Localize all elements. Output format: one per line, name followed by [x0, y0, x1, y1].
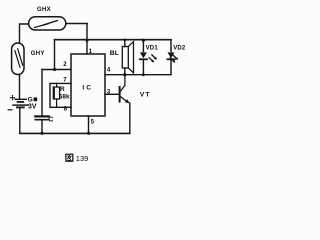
svg-text:GHX: GHX [37, 7, 51, 13]
svg-text:GHY: GHY [31, 51, 45, 57]
svg-text:BL: BL [110, 50, 119, 57]
svg-text:68k: 68k [59, 93, 70, 100]
svg-text:R: R [60, 86, 65, 93]
svg-text:VD1: VD1 [146, 45, 159, 51]
svg-text:VT: VT [140, 92, 151, 99]
svg-text:IC: IC [82, 85, 93, 92]
svg-text:G: G [28, 96, 33, 103]
svg-text:3V: 3V [28, 104, 37, 111]
svg-text:C: C [48, 116, 53, 123]
svg-text:139: 139 [76, 154, 89, 163]
svg-text:VD2: VD2 [173, 45, 186, 51]
